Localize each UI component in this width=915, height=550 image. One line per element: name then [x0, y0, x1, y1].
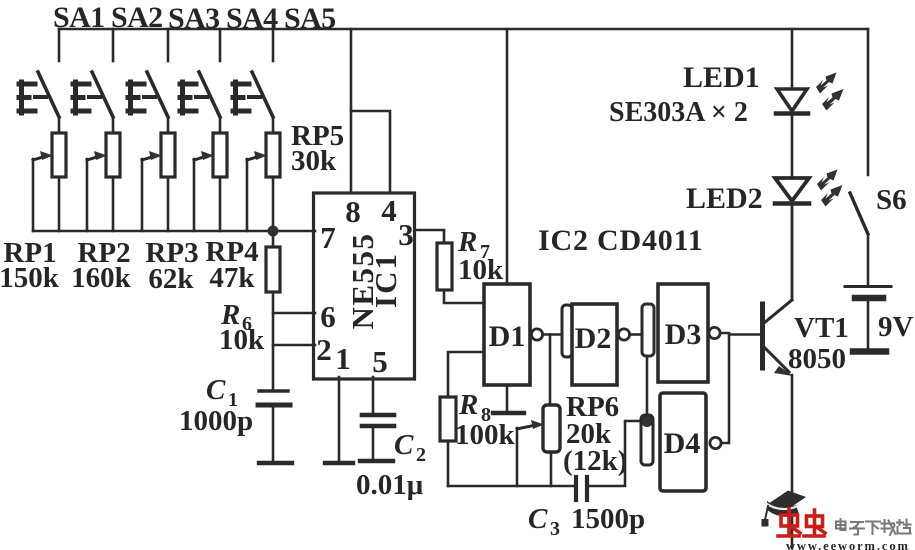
svg-text:8050: 8050 — [788, 343, 846, 375]
transistor Q1 VT1 8050 — [763, 208, 794, 548]
svg-text:9V: 9V — [878, 311, 914, 343]
gate D3 — [642, 284, 720, 382]
node junction dot at RP5 bottom — [268, 226, 279, 237]
wire pin 8 jog to pin 4 — [351, 111, 390, 193]
resistor R6 label — [219, 299, 265, 356]
wire bus to pin 8 — [350, 29, 353, 193]
wire wiper bus to pin 7 — [33, 230, 315, 233]
watermark url text — [786, 539, 910, 550]
svg-text:10k: 10k — [219, 324, 265, 356]
potentiometer RP3 — [142, 117, 175, 231]
node SA2 label — [111, 1, 163, 34]
potentiometer RP2 — [87, 117, 120, 231]
svg-text:8: 8 — [345, 194, 361, 229]
svg-text:R: R — [458, 389, 478, 421]
ground bar under D1 — [493, 411, 524, 415]
gate D4 label — [664, 427, 701, 460]
svg-text:100k: 100k — [455, 419, 516, 451]
node SA3 label — [168, 2, 220, 35]
wire D3 output to VT1 base — [720, 333, 760, 335]
switch S6 — [850, 29, 868, 234]
svg-text:IC2 CD4011: IC2 CD4011 — [538, 224, 704, 257]
node SA5 label — [284, 2, 336, 35]
potentiometer RP4 label — [205, 236, 258, 294]
potentiometer RP1 — [33, 117, 66, 231]
op-amp U1 : timer IC1 NE555 box — [314, 193, 415, 379]
wire bus to gate D1 top input — [506, 29, 509, 284]
gate D1 label — [489, 320, 526, 353]
svg-text:30k: 30k — [291, 145, 337, 177]
wire D4 output join to D3 output — [721, 334, 729, 443]
LED2 label — [686, 182, 763, 215]
wire D1 lower input to R8 — [448, 352, 484, 397]
svg-text:10k: 10k — [458, 254, 504, 286]
watermark red chongchong characters — [778, 509, 825, 536]
svg-text:SA3: SA3 — [168, 2, 220, 35]
LED1 — [776, 29, 808, 177]
ground bar under pin 1 — [325, 461, 353, 465]
svg-text:150k: 150k — [0, 262, 60, 294]
transistor VT1 label — [788, 312, 849, 375]
potentiometer RP3 label — [145, 237, 198, 295]
resistor R8 — [440, 397, 456, 441]
resistor R7 — [437, 243, 452, 290]
wire R6 node to pin 6 — [273, 312, 315, 315]
gate D3 label — [665, 318, 702, 351]
switch SA1 — [19, 29, 59, 117]
gate D2 — [562, 304, 630, 385]
resistor R8 label — [455, 389, 516, 451]
switch SA2 — [73, 29, 113, 117]
svg-text:D3: D3 — [665, 318, 702, 351]
gate D4 — [641, 393, 721, 491]
svg-text:62k: 62k — [148, 263, 194, 295]
node junction dot D4 input — [641, 415, 653, 427]
svg-text:5: 5 — [372, 344, 388, 379]
capacitor C2 on pin 5 — [360, 377, 394, 461]
svg-text:SA1: SA1 — [53, 1, 105, 34]
svg-text:160k: 160k — [71, 262, 132, 294]
svg-text:2: 2 — [316, 332, 332, 367]
capacitor C3 label — [528, 503, 645, 540]
battery 9V — [845, 234, 891, 352]
watermark gray site name characters — [836, 519, 911, 535]
wire R8 to bottom net — [447, 441, 450, 486]
wire D1 output down to RP6 — [549, 335, 552, 406]
resistor R6 — [266, 231, 280, 389]
capacitor C1 — [258, 391, 292, 463]
svg-text:47k: 47k — [209, 262, 255, 294]
wire D1 bottom to ground bar — [506, 385, 509, 411]
svg-text:1000p: 1000p — [179, 405, 253, 437]
svg-text:IC1: IC1 — [368, 252, 403, 308]
svg-text:VT1: VT1 — [794, 312, 849, 344]
watermark graduation cap logo — [762, 491, 807, 527]
svg-text:7: 7 — [320, 220, 336, 255]
switch SA3 — [128, 29, 168, 117]
potentiometer RP4 — [194, 117, 227, 231]
svg-text:C: C — [206, 374, 226, 406]
wire top supply bus — [59, 28, 868, 31]
resistor R7 label — [457, 226, 504, 286]
wire pin 3 to R7 — [415, 230, 444, 243]
wire pin 1 to ground bar — [338, 377, 341, 461]
switch SA5 — [233, 29, 273, 117]
gate D1 — [484, 284, 543, 385]
switch S6 label — [876, 184, 907, 216]
wire D3 input link to D4 input — [646, 356, 649, 415]
potentiometer RP5 label — [291, 120, 344, 177]
gate D2 label — [575, 322, 612, 355]
wire bottom net left of C3 — [448, 485, 573, 488]
svg-text:1500p: 1500p — [571, 503, 645, 535]
svg-text:3: 3 — [550, 518, 560, 540]
capacitor C3 — [576, 477, 587, 500]
IC2 label — [538, 224, 704, 257]
svg-text:D1: D1 — [489, 320, 526, 353]
wire D1 output to D2 input — [543, 333, 562, 336]
wire R7 to gate D1 input — [444, 290, 484, 303]
potentiometer RP5 — [247, 117, 280, 231]
op-amp U1 pin labels — [316, 193, 414, 379]
svg-text:1: 1 — [335, 341, 351, 376]
battery 9V label — [878, 311, 914, 343]
wire D2 output to D3 input — [630, 333, 642, 336]
svg-text:LED1: LED1 — [683, 61, 760, 94]
svg-text:SA4: SA4 — [226, 2, 278, 35]
svg-text:4: 4 — [381, 193, 397, 228]
LED1 label — [609, 61, 760, 128]
node SA1 label — [53, 1, 105, 34]
potentiometer RP1 label — [0, 237, 60, 294]
svg-text:SE303A × 2: SE303A × 2 — [609, 97, 748, 128]
LED1 light arrows — [816, 73, 844, 111]
capacitor C1 label — [179, 374, 253, 437]
svg-text:0.01μ: 0.01μ — [356, 469, 424, 501]
svg-text:(12k): (12k) — [563, 445, 627, 477]
svg-text:D4: D4 — [664, 427, 701, 460]
capacitor C2 label — [356, 429, 426, 501]
potentiometer RP6 — [517, 405, 560, 486]
node SA4 label — [226, 2, 278, 35]
svg-text:SA5: SA5 — [284, 2, 336, 35]
svg-text:3: 3 — [398, 217, 414, 252]
switch SA4 — [180, 29, 220, 117]
svg-text:2: 2 — [416, 444, 426, 466]
svg-text:C: C — [528, 503, 548, 535]
wire R6 node to pin 2 — [273, 344, 315, 347]
LED2 light arrows — [817, 170, 843, 207]
svg-text:LED2: LED2 — [686, 182, 763, 215]
svg-text:C: C — [394, 429, 414, 461]
svg-text:6: 6 — [320, 299, 336, 334]
potentiometer RP6 label — [563, 391, 627, 477]
svg-text:S6: S6 — [876, 184, 907, 216]
svg-text:D2: D2 — [575, 322, 612, 355]
svg-text:SA2: SA2 — [111, 1, 163, 34]
potentiometer RP2 label — [71, 237, 132, 294]
svg-text:www.eeworm.com: www.eeworm.com — [786, 539, 910, 550]
wire C3 to D3/D4 input node — [590, 421, 641, 486]
LED2 — [775, 178, 809, 300]
